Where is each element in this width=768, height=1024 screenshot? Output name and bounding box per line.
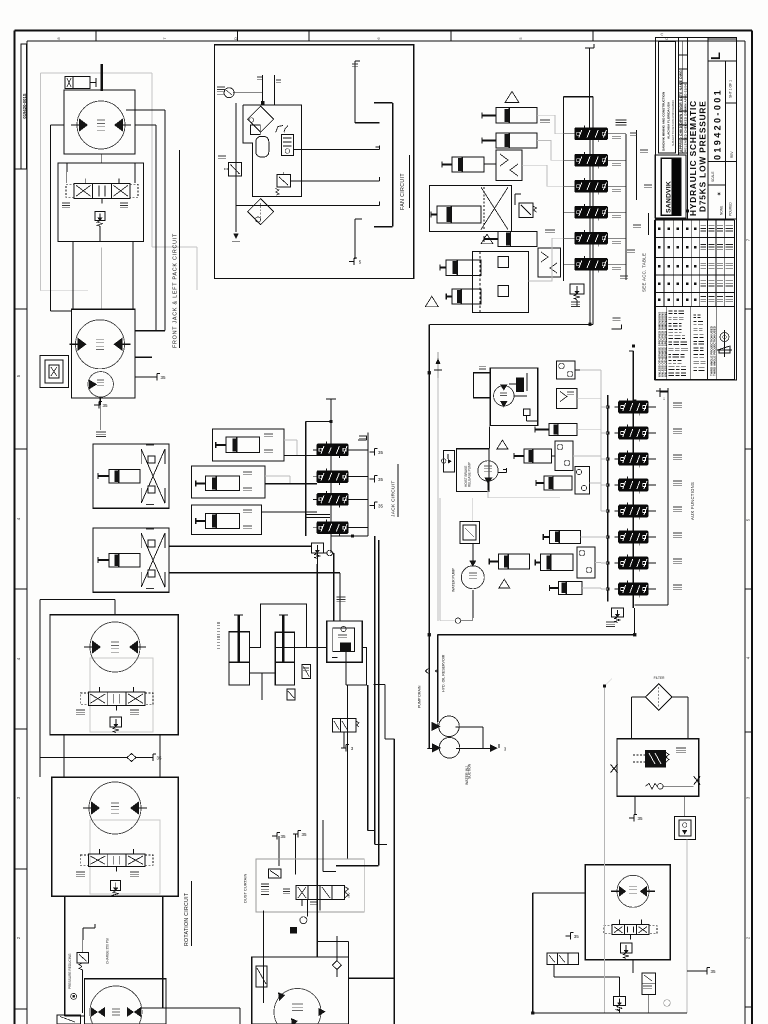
wire feed stack 3 left [564, 185, 571, 187]
wire swing right lower [135, 356, 152, 358]
rotation flag [40, 757, 127, 759]
wire br bottom rail [533, 1012, 687, 1014]
midright stack valve block 6 [619, 531, 648, 543]
fan circuit box [215, 45, 414, 279]
svg-text:019420-001S: 019420-001S [22, 93, 27, 118]
main pump P1 [90, 986, 142, 1024]
border zone ticks left [15, 308, 28, 310]
midright stack valve block 3 [619, 453, 648, 465]
gear pump box [457, 449, 490, 492]
wire midright stack 4 stub [648, 484, 656, 486]
pump drain break marks [425, 669, 428, 674]
svg-text:FILTER: FILTER [654, 676, 665, 680]
cylinder B2 [524, 449, 552, 463]
node hoist return [101, 154, 103, 163]
wire drain to strainer2 [427, 747, 429, 749]
feed stack valve block 1 [575, 128, 608, 140]
rotation box 1 [50, 615, 178, 735]
svg-text:POURED: POURED [729, 202, 733, 216]
hoist motor box [64, 90, 135, 154]
wire midright stack 2 stub [648, 432, 656, 434]
wire water valve gray up [472, 498, 474, 522]
connector flag -35 compressor [629, 817, 634, 819]
rotation box 2 [52, 777, 179, 896]
center stack right rail [367, 433, 369, 536]
bottom center pump circle [274, 989, 321, 1024]
suction strainer 1 [439, 716, 460, 737]
feed cylinder C6 [446, 260, 481, 275]
jack cylinder 2 [275, 632, 294, 685]
wire valve to lower motor right [132, 242, 134, 310]
svg-text:FRONT JACK & LEFT PACK CIRCUIT: FRONT JACK & LEFT PACK CIRCUIT [173, 233, 179, 348]
wire cylinder links gray [284, 439, 297, 441]
svg-text:ALACHUA FLORIDA USA: ALACHUA FLORIDA USA [667, 101, 671, 139]
connector flag center stack [370, 451, 375, 453]
br lower valve [642, 973, 655, 995]
wire strainer 1 out [455, 726, 483, 728]
marker triangle gear pump [497, 440, 508, 449]
fan supply stub right [273, 75, 275, 105]
swing brake box [40, 355, 68, 387]
bc pump inlet valve [256, 966, 267, 987]
wire br box bottom stub [632, 960, 634, 973]
svg-text:D: D [233, 37, 238, 40]
arc box row E [577, 547, 595, 578]
svg-text:FAN CIRCUIT: FAN CIRCUIT [400, 173, 406, 210]
rotation valve V5 [88, 854, 145, 866]
dust valve drain [306, 900, 308, 917]
oil cooler box [490, 368, 537, 426]
wire bc pump right [349, 977, 395, 979]
projection symbol [724, 330, 726, 357]
svg-text:WATER INJ.: WATER INJ. [465, 765, 469, 785]
jog y844 [375, 844, 387, 846]
midright stack valve block 4 [619, 479, 648, 491]
center stack block4 double line [306, 514, 330, 516]
fan solenoid valve [277, 175, 291, 187]
svg-text:D75KS LOW PRESSURE: D75KS LOW PRESSURE [698, 100, 708, 212]
scale row box [708, 160, 737, 162]
cooler inlet loop [474, 373, 491, 398]
svg-text:SUBJECT TO RETURN UPON DEMAND: SUBJECT TO RETURN UPON DEMAND [672, 100, 675, 146]
wire jack right to valve [295, 646, 327, 648]
company name box [659, 41, 676, 153]
swing motor box [72, 309, 135, 398]
outer border frame [15, 30, 753, 32]
svg-text:35: 35 [710, 969, 716, 974]
drain orifice box [674, 816, 695, 839]
suction strainer 2 [439, 738, 460, 759]
midright stack valve block 8 [619, 583, 648, 595]
bc pump diamond [332, 961, 341, 970]
wire rotation down right [162, 896, 164, 1008]
svg-text:35: 35 [378, 477, 384, 482]
feed cylinder C7 [452, 289, 481, 304]
wire feed stack 2 left [564, 159, 571, 161]
svg-text:SANDVIK: SANDVIK [666, 181, 673, 213]
sandvik logo box [655, 155, 686, 218]
svg-text:L: L [708, 52, 723, 60]
marker triangle water [499, 579, 510, 588]
cooler drain square [523, 409, 530, 416]
feed pilot valve right [514, 194, 516, 205]
svg-text:35: 35 [378, 450, 384, 455]
midright stack right header [667, 391, 669, 605]
wire center stack 3 right stub [348, 498, 368, 500]
fan gauge [224, 88, 234, 98]
remote cylinder 2 [109, 553, 140, 567]
feed stack enclosure right [592, 97, 594, 325]
center stack valve block 2 [317, 471, 348, 483]
br mid wires [553, 965, 555, 977]
rotation motor M5 [89, 782, 141, 834]
long run x367 [367, 685, 369, 831]
svg-text:PUMP DRAIN: PUMP DRAIN [418, 685, 422, 708]
svg-text:AUX FUNCTIONS: AUX FUNCTIONS [690, 482, 695, 520]
arc box row B [555, 441, 573, 470]
return filter diamond [645, 684, 672, 711]
gray drop line mid [604, 686, 606, 1013]
hoist control valve box [58, 163, 144, 242]
svg-text:⍈: ⍈ [663, 397, 665, 401]
wire remote to stack upper [169, 545, 311, 547]
pump circled port [71, 993, 77, 999]
pump small box [57, 1015, 80, 1024]
cooler relief symbol [517, 378, 524, 391]
holding valve box [557, 388, 577, 408]
svg-text:SANDVIK MINING AND CONSTRUCTIO: SANDVIK MINING AND CONSTRUCTION [662, 91, 666, 151]
connector flag -35 br right [702, 970, 707, 972]
rotation motor M4 [90, 622, 140, 672]
swing motor M2 [76, 320, 125, 369]
svg-text:35: 35 [574, 934, 580, 939]
connector stub below title block [659, 388, 661, 397]
compressor unload valve [645, 750, 665, 767]
wire hoist right rail [135, 124, 156, 126]
hoist directional valve V1 [74, 183, 130, 198]
feed big box [430, 186, 512, 232]
gear pump relief box [444, 450, 455, 472]
wire br motor right [670, 892, 687, 894]
wire fan bottom out [236, 204, 380, 206]
wire dust feed [316, 900, 318, 941]
cylinder C2 [544, 476, 572, 490]
cylinder box B [191, 466, 264, 498]
hose reel arc box [496, 150, 522, 181]
jack lower solenoid valve [287, 689, 295, 700]
svg-text:CHARGE 350 PSI: CHARGE 350 PSI [106, 938, 110, 964]
svg-text:35: 35 [301, 832, 307, 837]
rotation relief RV4 [110, 717, 122, 727]
swing aux pump circle [88, 372, 113, 397]
rotation valve V4 [88, 692, 145, 705]
hoist motor supply thick line [100, 64, 103, 91]
wire filter left [631, 696, 645, 698]
cylinder D2 [549, 531, 580, 544]
feed valve stack center line [589, 128, 591, 294]
wire fan return vertical [235, 103, 237, 232]
fan right header line [392, 103, 394, 227]
feed stack valve block 6 [575, 259, 608, 271]
midright stack bottom wire [634, 608, 636, 635]
wire feed stack 3 right [607, 185, 626, 187]
gray circle marker [664, 1000, 671, 1007]
fan supply stub left [262, 75, 264, 105]
title block outline [656, 38, 737, 381]
midright stack valve block 1 [619, 401, 648, 413]
wire valve internal left [66, 172, 68, 183]
midright stack relief valve [611, 608, 623, 617]
cylinder B [206, 476, 240, 491]
border zone ticks right [745, 308, 752, 310]
remote cylinder 1 [109, 469, 140, 483]
svg-text:HYDRAULIC SCHEMATIC: HYDRAULIC SCHEMATIC [688, 100, 698, 216]
wire center stack 1 right stub [348, 449, 368, 451]
revision table grid [655, 219, 735, 221]
wire rotation link left [63, 735, 65, 778]
fan inner component box [243, 105, 302, 197]
midright stack valve block 2 [619, 427, 648, 439]
compressor M-O symbol [645, 784, 657, 790]
svg-text:35: 35 [160, 375, 166, 380]
bottom right motor M3 [617, 875, 649, 907]
wire midright stack 6 stub [648, 536, 656, 538]
hoist valve labels [62, 202, 70, 204]
feed stack relief valve [570, 284, 584, 294]
svg-text:SCALE: SCALE [711, 172, 715, 182]
jog y739 [385, 738, 394, 740]
fan filter diamond [248, 106, 274, 132]
connector flag center stack [370, 478, 375, 480]
wire strainer 2 out [456, 747, 490, 749]
pump drain arrow mark [437, 352, 439, 378]
hoist circuit faint enclosure [40, 73, 42, 291]
water pump circle [461, 566, 484, 589]
midright stack valve block 7 [619, 557, 648, 569]
wire hoist aux right [126, 109, 165, 111]
feed cylinder C1 [496, 108, 537, 123]
svg-text:35: 35 [102, 403, 108, 408]
center stack bottom wire [331, 535, 368, 537]
gray drop line right [686, 840, 688, 1013]
pressure reducing valve [77, 953, 89, 963]
svg-text:NONE: NONE [720, 206, 724, 215]
wire center stack down left [317, 552, 327, 554]
hoist drain faint line [101, 247, 103, 309]
svg-text:UNLESS OTHERWISE SPECIFIED DIM: UNLESS OTHERWISE SPECIFIED DIMENSIONS [664, 312, 668, 377]
compressor x mark right [694, 776, 701, 784]
fan pressure valve left [229, 162, 242, 176]
marker triangle cyl3 [481, 234, 493, 244]
wire feed stack 6 left [564, 263, 571, 265]
notes text block [669, 310, 673, 312]
fan lower filter diamond [248, 199, 274, 225]
stack left rail [607, 395, 609, 602]
wire drain to strainer1 [427, 727, 429, 748]
wire relief drain [99, 226, 101, 242]
feed stack enclosure left [563, 97, 565, 281]
midright stack supply hook [629, 350, 633, 352]
anti-cavitation block [538, 248, 561, 277]
connector flag center stack [370, 505, 375, 507]
svg-text:VLV: VLV [347, 893, 351, 898]
wire fan solenoid out [291, 180, 380, 182]
wire jack bottom link [249, 672, 275, 674]
svg-text:ROTATION CIRCUIT: ROTATION CIRCUIT [184, 892, 190, 946]
wire center stack 2 right stub [348, 476, 368, 478]
long run x394 [393, 739, 395, 1024]
feed cylinder C5 [498, 231, 537, 246]
wire jack bridge top [249, 604, 306, 647]
jack lock valve small [302, 665, 311, 679]
dust inlet valve [269, 869, 281, 878]
marker triangle lower [425, 296, 438, 306]
fan port bracket lower [354, 219, 356, 259]
cylinder F2 [559, 582, 583, 595]
svg-text:RELEASE PUMP: RELEASE PUMP [468, 462, 472, 487]
connector flag -35 dust a [272, 835, 277, 837]
connector flag -35 below swing [94, 404, 99, 406]
notes and projection block [654, 307, 656, 380]
wire feed stack 1 left [564, 133, 571, 135]
svg-text:PRESSURE REDUCING: PRESSURE REDUCING [68, 953, 72, 989]
svg-text:DUST CURTAIN: DUST CURTAIN [243, 874, 248, 903]
wire br motor left [533, 892, 586, 894]
wire into dust box right [336, 865, 379, 867]
hose reel cylinder C3 [452, 157, 484, 172]
gear pump circle [478, 461, 498, 481]
main pump box left [84, 979, 166, 1024]
feed supply line top [589, 48, 591, 128]
wire swing drain down [100, 397, 102, 430]
tank box top line [437, 635, 439, 722]
center stack top right flag [358, 439, 367, 441]
hoist motor M1 [77, 101, 125, 149]
wire jack valve right loop [346, 647, 366, 685]
connector flag -3 jack [341, 747, 346, 749]
wire gauge to line [233, 92, 262, 94]
wire compressor down flag [634, 796, 636, 814]
wire gear pump out [498, 471, 506, 473]
long run x378 [378, 540, 380, 866]
sheet size box with L [708, 39, 737, 61]
wire rotation down left [64, 896, 66, 1016]
jog y830 [368, 830, 375, 832]
midright box top edge [429, 323, 593, 325]
wire rotation link right [159, 735, 161, 778]
cylinder C [206, 513, 240, 528]
hoist faint right enclosure [152, 246, 197, 248]
dust curtain box [256, 859, 364, 912]
wire feed stack 4 left [564, 211, 571, 213]
connector flag -35 dust b [293, 833, 298, 835]
marker triangle cyl1 [505, 91, 519, 102]
fan control valve stack [282, 134, 294, 155]
feed small labels left [540, 119, 550, 121]
pressure reducing flag [82, 928, 84, 940]
wire water pump down [472, 590, 474, 618]
cylinder A [226, 437, 260, 452]
wire filter right [672, 696, 688, 698]
hoist relief valve RV1 [95, 212, 105, 221]
remote control box 2 [93, 528, 169, 592]
long run x375 [374, 536, 376, 845]
wire valve to lower motor left [72, 242, 74, 310]
feed stack right header [625, 134, 627, 280]
wire bc pump top [336, 970, 338, 978]
wire gear pump bottom [487, 481, 489, 490]
center stack valve block 4 [317, 522, 348, 534]
wire hoist left rail [51, 124, 65, 126]
border zone ticks top [95, 31, 97, 42]
feed stack valve block 2 [575, 155, 608, 167]
dust box interior marks [261, 883, 269, 885]
cylinder E2 [540, 554, 573, 570]
rev column small text [726, 102, 737, 104]
wire midright stack 1 stub [648, 406, 656, 408]
center stack valve block 3 [317, 494, 348, 506]
svg-text:JACK CIRCUIT: JACK CIRCUIT [391, 480, 397, 517]
burst valve box upper [557, 361, 575, 379]
bottom center pump box [252, 957, 349, 1024]
cylinder A2 [549, 424, 577, 436]
svg-text:SHT 1 OF 1: SHT 1 OF 1 [729, 80, 733, 98]
svg-text:✶: ✶ [716, 191, 721, 198]
water pump valve box [460, 521, 479, 543]
svg-text:REV: REV [730, 151, 734, 158]
center stack left rail [305, 421, 307, 536]
wire pump bottom rail [65, 1015, 85, 1017]
bottom right valve [612, 925, 649, 935]
svg-text:RELEASED CHECKED DRAWN APPD 01: RELEASED CHECKED DRAWN APPD 01/04 [683, 84, 687, 152]
center stack valve block 1 [317, 444, 348, 456]
remote crossover 1 [141, 449, 165, 503]
gray riser line [437, 378, 439, 621]
svg-text:SEE ACC. TABLE: SEE ACC. TABLE [642, 253, 647, 292]
wire midright stack 5 stub [648, 510, 656, 512]
wire midright stack 8 stub [648, 588, 656, 590]
gray links to stack [580, 369, 601, 371]
br solenoid valve [547, 953, 579, 965]
inner border frame [27, 40, 745, 42]
wire center stack 4 right stub [348, 527, 368, 529]
run x385 segment [384, 685, 386, 739]
connector flag -5 fan [349, 261, 354, 263]
junction dots [428, 633, 431, 636]
midright stack center line [632, 351, 634, 608]
feed stack valve block 4 [575, 207, 608, 219]
center stack supply line [330, 399, 332, 553]
hoist brake valve [65, 77, 90, 89]
feed stack valve block 3 [575, 181, 608, 193]
feed lower box [473, 252, 529, 313]
pump drain main line [428, 324, 430, 748]
center stack drain circle [327, 550, 333, 556]
fan accumulator capsule [256, 136, 269, 157]
wire feed stack bottom [589, 294, 591, 324]
fan port bracket upper [354, 61, 356, 123]
cylinder box C [191, 505, 261, 535]
wire cooler to gearpump [488, 427, 490, 449]
svg-text:35: 35 [156, 756, 162, 761]
feed stack aux line [636, 130, 638, 200]
connector flag -35 br left [565, 935, 570, 937]
wire feed stack 4 right [607, 211, 626, 213]
center stack relief valve [311, 543, 323, 553]
fan valve pilot arcs [276, 126, 283, 133]
svg-text:WATER PUMP: WATER PUMP [452, 567, 456, 592]
midright bottom edge [438, 634, 635, 636]
